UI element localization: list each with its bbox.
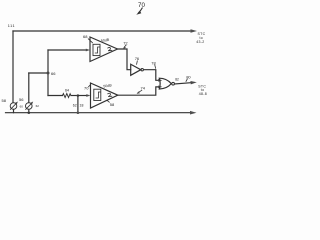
arrowhead: top output arrow	[191, 29, 198, 33]
svg-text:70: 70	[84, 85, 89, 90]
arrowhead into gate top input	[158, 79, 162, 82]
current source I1 (circle with diagonal arrow)	[10, 102, 18, 110]
wire: horizontal to node 66	[29, 72, 48, 74]
wire: bottom rail	[6, 112, 192, 114]
svg-text:50dB: 50dB	[103, 83, 112, 88]
wire: vertical node bus at x=48	[47, 50, 49, 96]
svg-text:60: 60	[20, 104, 24, 108]
wire: I2 up to node 66 level	[28, 73, 30, 103]
resistor 64	[63, 94, 71, 98]
wire: comparator U1 output	[118, 49, 131, 70]
wire: gate output	[175, 83, 193, 84]
svg-text:50dB: 50dB	[101, 38, 110, 43]
wire: node 62 to comparator 70 input	[78, 95, 87, 97]
svg-text:78: 78	[151, 60, 156, 65]
wire: comparator U2 output to gate bottom input	[118, 87, 160, 95]
wire: top output line	[13, 30, 192, 32]
current source I2 (circle with diagonal arrow)	[26, 102, 34, 110]
svg-text:76: 76	[135, 56, 140, 61]
arrowhead into gate bottom input	[158, 86, 162, 89]
svg-text:74: 74	[141, 86, 146, 91]
net text: to 43-2 (top right)	[196, 32, 205, 44]
wire: resistor to node 62	[71, 95, 78, 97]
junction dot on rail at x=78	[77, 111, 80, 114]
comparator U2 (lower, 50dB)	[91, 83, 118, 108]
wire: inverter output to gate top input	[144, 70, 160, 81]
arrowhead into comparator 70	[86, 94, 90, 97]
label 70 with leader (comparator U2)	[84, 85, 90, 91]
arrowhead into comparator 68	[86, 49, 90, 52]
svg-text:48-8: 48-8	[199, 92, 207, 96]
label 72 with leader arrow	[123, 40, 128, 49]
label 76 with leader	[135, 56, 140, 64]
svg-text:111: 111	[8, 24, 15, 28]
label 68 with leader	[83, 34, 93, 43]
svg-text:62: 62	[36, 104, 40, 108]
svg-text:58: 58	[2, 98, 7, 103]
arrowhead: bottom rail output arrow	[190, 111, 197, 115]
svg-text:18: 18	[80, 103, 84, 107]
junction dot node 62	[77, 94, 80, 97]
wire: node 62 down to bottom rail	[77, 96, 79, 113]
label 74 with leader arrow	[137, 86, 146, 94]
arrowhead: gate output arrow	[190, 81, 196, 84]
svg-text:43-2: 43-2	[196, 40, 204, 44]
svg-text:72: 72	[123, 40, 128, 45]
svg-text:66: 66	[51, 71, 56, 76]
label 80 with leader	[186, 75, 191, 82]
wire: I2 to bottom rail	[28, 109, 30, 112]
net text: to 48-8 (middle right)	[198, 84, 207, 96]
comparator U1 (upper, 50dB)	[90, 37, 118, 62]
wire: I1 to bottom rail	[13, 109, 15, 112]
junction dot on rail below I2	[28, 111, 31, 114]
label 58 with leader (lower right of U2)	[107, 100, 115, 107]
label 78 with leader	[151, 60, 156, 68]
svg-text:82: 82	[175, 77, 179, 81]
inverter 76	[131, 64, 144, 75]
junction dot node 66	[47, 72, 50, 75]
label 70 (figure reference numeral)	[136, 2, 145, 15]
svg-text:62: 62	[73, 103, 77, 107]
svg-text:56: 56	[19, 97, 24, 102]
NOR gate 78	[159, 78, 174, 89]
svg-text:64: 64	[65, 88, 69, 92]
wire: lower branch to resistor	[48, 95, 63, 97]
svg-text:58: 58	[110, 102, 115, 107]
svg-text:68: 68	[83, 34, 88, 39]
wire: left edge down to current source I1	[12, 31, 14, 103]
wire: input to comparator 68	[48, 49, 87, 51]
